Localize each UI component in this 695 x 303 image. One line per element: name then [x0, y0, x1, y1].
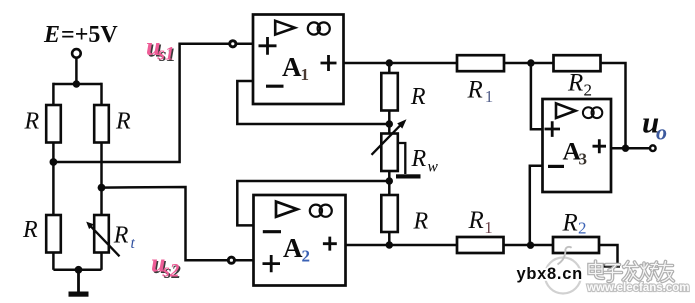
node bridge bottom junction: [75, 266, 83, 274]
node left mid (us1 tap): [50, 158, 58, 166]
wire column bottom stub: [388, 232, 391, 245]
svg-text:R: R: [24, 109, 40, 135]
wire right branch lower: [100, 253, 103, 270]
label us1: [146, 32, 176, 66]
svg-text:2: 2: [578, 219, 587, 238]
wire us1: left mid node to A1 + input: [53, 44, 253, 162]
svg-text:R: R: [113, 223, 129, 249]
resistor Rt (thermistor): [94, 215, 109, 253]
wire right branch middle: [100, 143, 103, 216]
svg-text:R: R: [115, 109, 131, 135]
ground (R2 lower): [603, 264, 621, 268]
wire right branch upper: [100, 83, 103, 105]
A2 plus input marker: [263, 255, 281, 272]
svg-text:s1: s1: [157, 44, 175, 65]
svg-text:R: R: [413, 209, 429, 235]
A3 plus input marker: [545, 121, 561, 137]
label A2: [283, 233, 310, 266]
output terminal uo: [650, 145, 656, 151]
supply terminal: [72, 49, 81, 58]
svg-text:1: 1: [484, 218, 493, 237]
A1 plus output marker: [321, 55, 337, 71]
op-amp U A1: [253, 15, 344, 105]
wire A2 output rail: [346, 244, 458, 247]
wire left branch lower: [52, 253, 55, 270]
watermark logo circle + sprout: [545, 247, 581, 294]
wire A1 inverting feedback to R/Rw junction: [237, 81, 389, 124]
wire left branch middle: [52, 143, 55, 216]
node Rw/R junction: [386, 177, 393, 184]
svg-text:E=+5V: E=+5V: [43, 22, 118, 48]
resistor R (gain, upper): [381, 73, 398, 111]
svg-text:w: w: [428, 159, 439, 176]
node A2 output / column bottom: [386, 241, 393, 248]
wire between upper R and Rw: [388, 111, 391, 134]
svg-text:R: R: [468, 207, 484, 234]
svg-text:R: R: [567, 70, 583, 97]
node A1 output / R column top: [386, 59, 393, 66]
svg-text:ybx8.cn: ybx8.cn: [517, 265, 583, 283]
A2 minus input marker: [263, 230, 281, 233]
svg-text:1: 1: [301, 65, 310, 84]
svg-text:2: 2: [584, 81, 593, 100]
svg-text:R: R: [411, 146, 427, 172]
watermark chinese characters (drawn): [589, 261, 674, 282]
svg-text:t: t: [131, 235, 136, 252]
svg-text:s2: s2: [162, 261, 180, 282]
wire R1 to R2 (upper): [504, 62, 554, 65]
resistor R2 (lower): [553, 237, 599, 253]
op-amp U A2: [254, 195, 346, 286]
node output junction: [622, 145, 629, 152]
resistor R1 (lower): [457, 237, 504, 253]
wire lower R2 to ground: [599, 245, 618, 264]
label us2: [151, 249, 181, 284]
label A1: [282, 52, 309, 84]
A3 plus output marker: [593, 139, 607, 153]
svg-text:A: A: [283, 233, 303, 263]
resistor R2 (upper): [554, 55, 601, 71]
node R/Rw junction: [386, 120, 393, 127]
label uo: [642, 105, 667, 145]
supply label E=+5V: [43, 22, 118, 48]
wire left branch upper: [52, 83, 55, 105]
node right mid (us2 tap): [98, 184, 106, 192]
resistor R bridge top-right: [94, 105, 109, 143]
wire A1 output rail: [344, 62, 458, 65]
svg-text:R: R: [22, 217, 38, 243]
resistor R bridge top-left: [46, 105, 61, 143]
wire A3 + input from upper junction: [531, 63, 543, 129]
svg-text:2: 2: [302, 247, 311, 266]
wire bridge bottom rail: [53, 269, 101, 272]
svg-text:3: 3: [579, 149, 588, 168]
wire column top stub: [388, 63, 391, 73]
resistor R (gain, lower): [381, 195, 398, 232]
resistor R bridge bottom-left: [46, 215, 61, 253]
ground (bridge): [77, 270, 80, 292]
node bridge top junction: [73, 80, 80, 87]
potentiometer Rw: [381, 134, 398, 172]
node terminal on A2 input wire: [228, 257, 234, 263]
wire us2: right mid node to A2 + input: [102, 187, 254, 260]
A1 minus input marker: [266, 85, 284, 88]
resistor R1 (upper): [457, 55, 504, 71]
svg-text:R: R: [467, 76, 483, 103]
svg-text:o: o: [656, 120, 667, 145]
wire A3 output: [611, 147, 650, 150]
wire R2 to feedback corner: [601, 63, 626, 148]
wire lower R1 to R2: [504, 244, 554, 247]
svg-text:A: A: [282, 52, 302, 82]
wire between Rw and lower R: [388, 171, 391, 195]
wire bridge top rail: [53, 83, 101, 86]
wire A2 inverting feedback to Rw/R junction: [237, 181, 389, 225]
Rw wiper tap: [398, 143, 406, 174]
A3 minus input marker: [548, 165, 564, 168]
svg-text:1: 1: [485, 87, 494, 106]
A2 plus output marker: [323, 237, 337, 251]
node upper R1/R2 junction: [527, 59, 534, 66]
node terminal on A1 input wire: [230, 41, 236, 47]
svg-text:R: R: [562, 210, 578, 237]
svg-text:www.elecfans.com: www.elecfans.com: [586, 282, 689, 294]
label A3: [563, 137, 588, 169]
op-amp U A3: [543, 99, 612, 192]
svg-text:R: R: [410, 84, 426, 110]
node lower R1/R2 junction: [527, 242, 534, 249]
wire A3 - input from lower junction: [530, 166, 543, 245]
wire supply stub: [75, 57, 78, 84]
A1 plus input marker: [259, 37, 277, 55]
